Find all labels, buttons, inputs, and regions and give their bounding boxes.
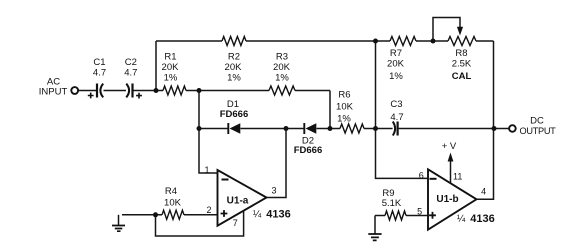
node: R7/R8 junction <box>431 39 436 44</box>
capacitor C3 <box>393 122 395 136</box>
wire R3 right vertical <box>329 91 331 129</box>
svg-text:1: 1 <box>204 165 209 175</box>
capacitor C1 <box>96 84 98 98</box>
ground G2 (U1-b non-inverting) <box>374 216 376 234</box>
svg-text:11: 11 <box>453 171 462 181</box>
svg-text:U1-a: U1-a <box>227 195 249 206</box>
svg-text:¼: ¼ <box>253 208 262 220</box>
node: summing junction on top rail <box>373 39 378 44</box>
wire summing node vertical to U1-b pin 6 <box>376 41 429 178</box>
node: input junction A <box>154 88 159 93</box>
svg-text:4.7: 4.7 <box>124 67 137 78</box>
arrowhead of R8 wiper <box>457 27 463 36</box>
potentiometer R8 CAL <box>448 37 476 46</box>
svg-text:¼: ¼ <box>457 213 466 225</box>
op-amp U1-a <box>218 170 267 226</box>
ground G1 (U1-a non-inverting) <box>118 215 120 225</box>
node: U1-a output junction <box>284 126 289 131</box>
wire R4 / U1-a pin 2 line <box>122 214 218 216</box>
svg-text:1%: 1% <box>275 73 289 84</box>
svg-text:20K: 20K <box>162 62 180 73</box>
svg-text:4136: 4136 <box>470 213 494 225</box>
node: ground/R4 junction <box>153 212 158 217</box>
svg-text:U1-b: U1-b <box>436 194 458 205</box>
wire U1-a output vertical <box>267 129 287 198</box>
svg-text:4: 4 <box>481 186 486 196</box>
wire AC input line <box>78 90 163 92</box>
node: B on diode line <box>197 126 202 131</box>
wire output vertical <box>477 41 494 199</box>
svg-text:R3: R3 <box>276 52 288 63</box>
resistor R6 <box>340 124 364 133</box>
resistor R7 <box>390 37 416 46</box>
svg-text:2.5K: 2.5K <box>452 59 472 70</box>
svg-text:DC: DC <box>530 115 544 126</box>
svg-text:20K: 20K <box>273 62 291 73</box>
svg-text:CAL: CAL <box>452 71 472 82</box>
svg-text:R7: R7 <box>390 48 402 59</box>
svg-text:1%: 1% <box>389 71 403 82</box>
svg-text:20K: 20K <box>225 62 243 73</box>
DC output terminal <box>509 125 516 132</box>
svg-text:R6: R6 <box>338 90 350 101</box>
svg-text:OUTPUT: OUTPUT <box>520 126 557 136</box>
svg-text:10K: 10K <box>336 102 354 113</box>
AC input terminal <box>71 87 78 94</box>
resistor R3 <box>269 86 295 95</box>
svg-text:1%: 1% <box>337 114 351 125</box>
svg-text:FD666: FD666 <box>294 145 323 156</box>
svg-text:R8: R8 <box>455 48 467 59</box>
diode D2 FD666 <box>303 123 305 134</box>
svg-text:C3: C3 <box>390 99 402 110</box>
diode D1 FD666 <box>227 123 229 134</box>
svg-text:FD666: FD666 <box>220 109 249 120</box>
wire top rail <box>156 40 494 42</box>
svg-text:2: 2 <box>206 205 211 215</box>
wire input-node vertical <box>155 41 157 91</box>
resistor R4 <box>162 210 184 219</box>
wire diode line <box>199 128 509 130</box>
svg-text:10K: 10K <box>164 198 182 209</box>
svg-text:6: 6 <box>419 170 424 180</box>
wire node B to U1-a pin 1 <box>199 91 218 174</box>
wire U1-b pin 5 line <box>375 215 428 217</box>
resistor R2 <box>222 37 246 46</box>
svg-text:4136: 4136 <box>266 209 290 221</box>
wire R1-R3 line <box>186 90 330 92</box>
node: DC output junction <box>492 126 497 131</box>
resistor R9 <box>385 211 406 220</box>
svg-text:20K: 20K <box>387 59 405 70</box>
capacitor C2 <box>126 84 129 98</box>
svg-text:R1: R1 <box>164 52 176 63</box>
node: U1-b summing junction <box>373 126 378 131</box>
op-amp U1-b <box>428 169 477 229</box>
node: D2/R6 junction <box>328 126 333 131</box>
svg-text:R2: R2 <box>228 52 240 63</box>
svg-text:INPUT: INPUT <box>39 86 68 97</box>
resistor R1 <box>163 86 186 95</box>
svg-text:3: 3 <box>271 186 276 196</box>
wire U1-a pin7 feedback to ground node <box>156 211 244 236</box>
node: U1-a inverting input B <box>197 88 202 93</box>
svg-text:+ V: + V <box>442 141 457 152</box>
svg-text:1%: 1% <box>227 73 241 84</box>
+V supply arrow pin 11 <box>450 158 452 183</box>
svg-text:7: 7 <box>233 218 238 228</box>
wire trimmer wiper loop <box>433 18 460 42</box>
svg-text:4.7: 4.7 <box>390 112 403 123</box>
svg-text:5.1K: 5.1K <box>382 198 402 209</box>
svg-text:5: 5 <box>417 206 422 216</box>
svg-text:R4: R4 <box>165 186 177 197</box>
svg-text:4.7: 4.7 <box>93 67 106 78</box>
svg-text:1%: 1% <box>164 73 178 84</box>
